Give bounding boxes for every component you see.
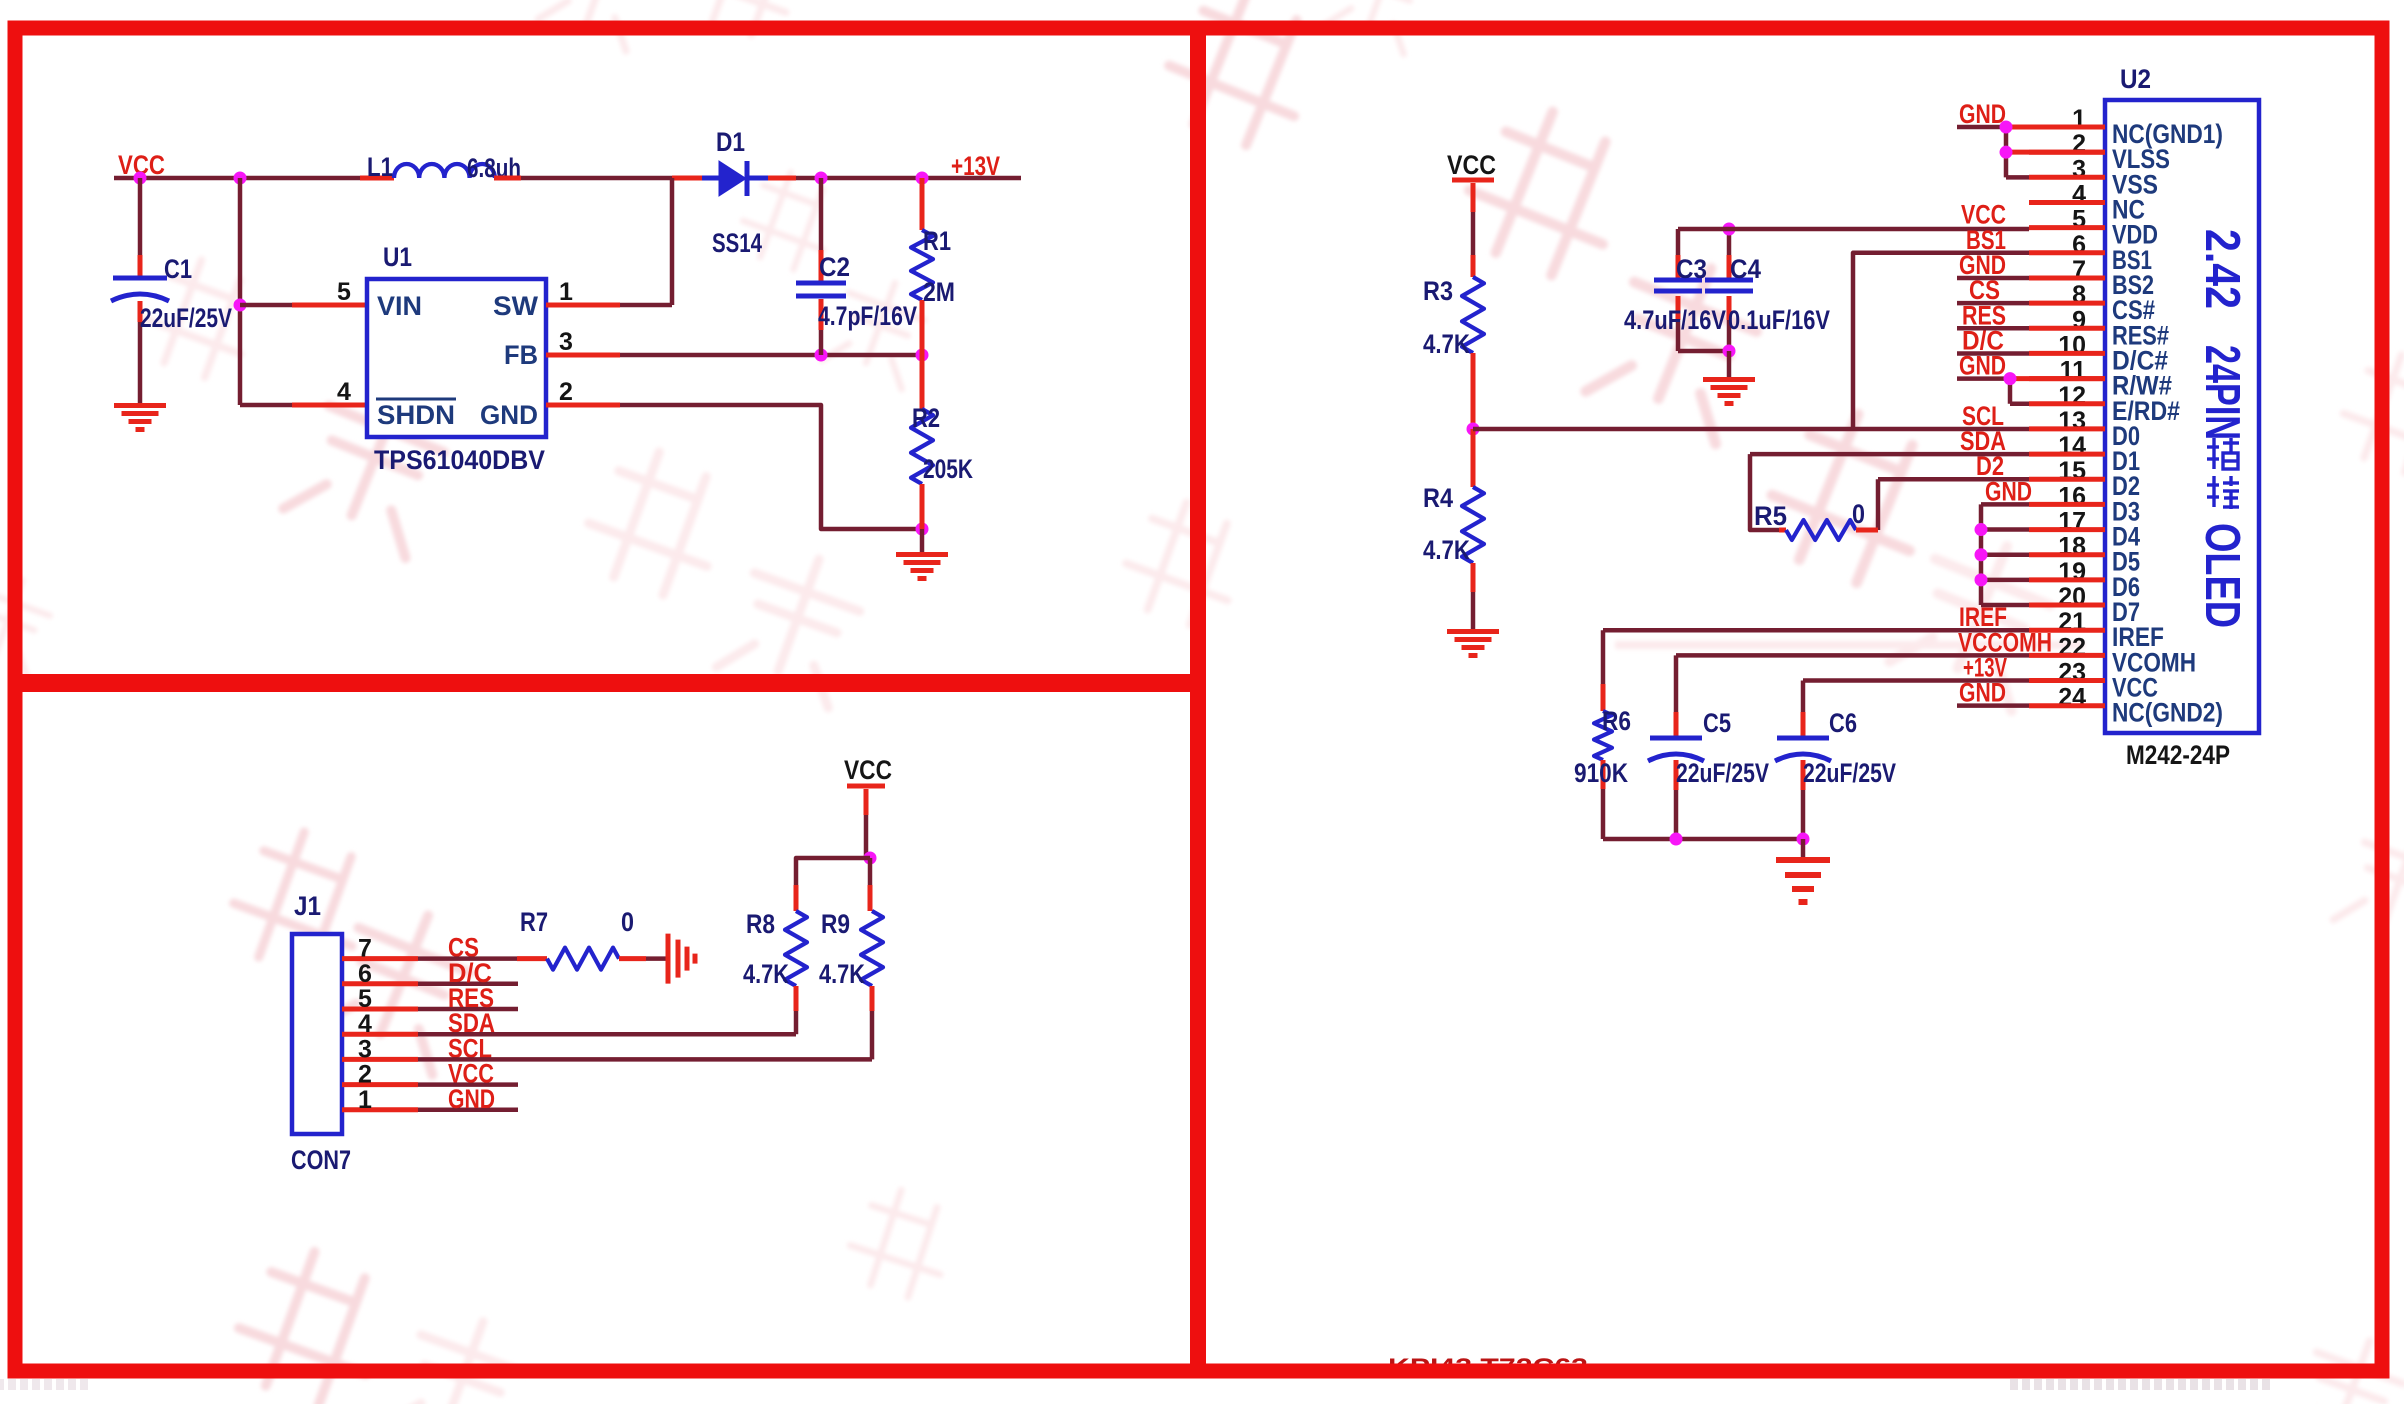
U2 pin 2 stub [2029,150,2105,155]
svg-text:C5: C5 [1703,708,1731,738]
U2 pin 24 stub [2029,703,2105,708]
ground below C1 [114,403,166,408]
svg-text:R4: R4 [1423,483,1453,513]
U2 pin 12 stub [2029,401,2105,406]
svg-text:NC(GND2): NC(GND2) [2112,698,2223,728]
node junction dot R3/R4 [1467,423,1480,436]
node junction dot FB/C2 [815,349,828,362]
svg-text:4.7K: 4.7K [819,959,865,989]
U2 vertical label CJK glyph jie [2207,476,2239,509]
U2 pin 10 stub [2029,351,2105,356]
wire R7 to ground [619,956,646,961]
wire +13V pin 23 to C6 [1803,678,2029,683]
resistor R8 4.7K [785,911,807,986]
U2 pin 6 stub [2029,250,2105,255]
wire D/C stub pin 10 [1957,351,2029,356]
wire VCOMH pin 22 to C5 [1676,653,2029,658]
diode D1 SS14 [702,176,719,181]
resistor R6 910K [1601,684,1606,711]
svg-text:R3: R3 [1423,276,1453,306]
ground below C6 [1776,857,1830,863]
svg-text:3: 3 [559,328,573,356]
wire D2 net pin 15 from R5 [1878,477,2029,482]
node junction dot at C2 branch [815,172,828,185]
svg-text:R8: R8 [746,909,775,939]
wire divider to U2 D0 and BS1 riser [1473,427,2029,432]
svg-text:5: 5 [358,985,372,1013]
resistor R4 4.7K [1471,429,1476,487]
svg-text:205K: 205K [923,454,973,484]
connector J1 CON7 body [292,934,342,1134]
ground below C3/C4 [1703,377,1755,382]
svg-text:TPS61040DBV: TPS61040DBV [374,445,545,475]
svg-text:5: 5 [337,278,351,306]
svg-text:CON7: CON7 [291,1145,351,1175]
svg-text:GND: GND [480,400,538,430]
node junction dot C6 bottom [1797,833,1810,846]
capacitor C4 0.1uF/16V [1727,229,1732,255]
node junction dot at U1 branch [234,172,247,185]
svg-text:GND: GND [448,1084,495,1114]
node junction dot C4 top at VDD wire [1723,223,1736,236]
svg-text:6: 6 [358,960,372,988]
svg-text:R6: R6 [1602,706,1631,736]
svg-text:L1: L1 [367,152,393,182]
svg-text:0: 0 [621,907,634,937]
U2 pin 20 stub [2029,603,2105,608]
node junction dot pin17 [1975,523,1988,536]
wire D1 to +13V rail [768,176,796,181]
wire VCC rail [114,176,360,181]
svg-text:2M: 2M [923,277,955,307]
wire GND stub pin 7 [1957,276,2029,281]
U2 pin 3 stub [2029,175,2105,180]
svg-text:0.1uF/16V: 0.1uF/16V [1728,305,1830,335]
svg-text:C2: C2 [819,252,850,282]
svg-text:4.7K: 4.7K [1423,329,1470,359]
wire to ground below C3/C4 [1727,351,1732,378]
capacitor C1 22uF/25V [138,178,143,255]
U2 pin 18 stub [2029,552,2105,557]
svg-text:4.7K: 4.7K [743,959,789,989]
svg-text:1: 1 [559,278,573,306]
node junction dot at R1 branch [916,172,929,185]
U2 vertical label CJK glyph cha [2207,438,2239,469]
svg-text:3: 3 [358,1035,372,1063]
node junction dot R8/R9 top [864,852,877,865]
inductor L1 [394,164,495,178]
wire L1 to D1 node [494,176,521,181]
svg-text:SHDN: SHDN [377,400,455,430]
svg-text:C6: C6 [1829,708,1857,738]
svg-text:22uF/25V: 22uF/25V [1803,758,1896,788]
svg-text:22uF/25V: 22uF/25V [140,303,232,333]
ground below R2 [920,529,925,553]
svg-text:R9: R9 [821,909,850,939]
faint glyph row under bottom border [2010,1379,2018,1390]
svg-text:VCC: VCC [1447,150,1496,180]
wire GND to U2 pins 1-3 [1957,125,2006,130]
node junction dot at VIN branch [234,299,247,312]
svg-text:SS14: SS14 [712,228,762,258]
svg-text:FB: FB [504,340,538,370]
resistor R1 2M [920,178,925,230]
ground below R4 [1447,629,1499,634]
wire GND bus pins 16-20 [1981,502,2029,507]
svg-text:910K: 910K [1574,758,1628,788]
IC U1 TPS61040DBV body [367,279,546,437]
U2 pin 4 stub [2029,200,2105,205]
svg-text:4: 4 [337,378,351,406]
svg-text:2: 2 [358,1061,372,1089]
U2 pin 13 stub [2029,426,2105,431]
svg-text:R7: R7 [520,907,548,937]
J1 pin 5 stub wire (RES) [342,1007,418,1012]
U2 pin 22 stub [2029,653,2105,658]
svg-text:7: 7 [358,935,372,963]
U2 pin 17 stub [2029,527,2105,532]
capacitor C3 4.7uF/16V [1676,229,1681,280]
node junction dot pin19 [1975,573,1988,586]
wire U1 input branch [238,178,243,405]
wire SDA to R8 [418,1032,796,1037]
node junction dot pin11 [2004,372,2017,385]
svg-text:2.42: 2.42 [2195,229,2249,309]
wire rail red segment before L1 [360,176,394,181]
wire GND stub pin 24 [1957,703,2029,708]
wire IREF pin 21 to R6 [1603,628,2029,633]
U2 pin 9 stub [2029,326,2105,331]
svg-text:C3: C3 [1676,254,1707,284]
resistor R2 205K [920,355,925,409]
U2 pin 23 stub [2029,678,2105,683]
wire ground bus R6/C5/C6 [1603,837,1803,842]
U2 pin 15 stub [2029,477,2105,482]
svg-text:GND: GND [1959,99,2006,129]
decorative watermark strokes [538,0,663,51]
node junction dot pin2 [2000,146,2013,159]
svg-text:4: 4 [358,1010,372,1038]
resistor R3 4.7K [1462,277,1484,353]
U2 pin 1 stub [2029,125,2105,130]
svg-text:U1: U1 [383,242,412,272]
U2 pin 11 stub [2029,376,2105,381]
node junction dot at C1 branch [134,172,147,185]
wire C6 to ground [1801,839,1806,858]
J1 pin 4 stub wire (SDA) [342,1032,418,1037]
svg-text:C4: C4 [1730,254,1761,284]
resistor R9 4.7K [861,911,883,986]
node junction dot C3/C4 bottom [1723,345,1736,358]
wire GND pin 2 to ground net [546,403,620,408]
svg-text:1: 1 [358,1086,372,1114]
wire VDD net from C3 to U2 pin 5 [1678,227,2029,232]
wire R4 to ground [1471,563,1476,592]
horizontal red divider (left half) [15,674,1198,692]
U2 pin 14 stub [2029,452,2105,457]
svg-text:4.7K: 4.7K [1423,535,1470,565]
svg-text:R5: R5 [1754,501,1787,531]
OLED connector U2 body [2105,100,2259,733]
wire CS to R7 [418,956,517,961]
U2 pin 5 stub [2029,225,2105,230]
svg-text:M242-24P: M242-24P [2126,740,2230,770]
wire VCC to R3 [1471,183,1476,212]
wire to SHDN pin 4 [240,403,292,408]
wire SCL to R9 [418,1057,872,1062]
node junction dot at R2 bottom [916,523,929,536]
svg-text:D1: D1 [716,127,745,157]
J1 pin 2 stub wire (VCC) [342,1082,418,1087]
svg-text:+13V: +13V [951,151,1000,181]
node junction dot pin18 [1975,548,1988,561]
wire SDA net pin 14 to R5 [1750,452,2029,457]
svg-text:0: 0 [1852,499,1865,529]
svg-text:4.7pF/16V: 4.7pF/16V [818,301,917,331]
wire C3/C4 bottom bus [1678,349,1729,354]
svg-text:C1: C1 [164,254,192,284]
wire R3 to R4 junction [1471,353,1476,429]
svg-text:4.7uF/16V: 4.7uF/16V [1624,305,1726,335]
U2 pin 16 stub [2029,502,2105,507]
node junction dot FB/R1/R2 [916,349,929,362]
wire GND to U2 pins 11-12 [1957,376,2010,381]
wire VCC to R8/R9 tops [864,789,869,815]
wire SW pin 1 up to rail [546,303,620,308]
J1 pin 1 stub wire (GND) [342,1107,418,1112]
wire R8 top branch [796,858,870,885]
U2 pin 7 stub [2029,276,2105,281]
capacitor C5 22uF/25V [1674,712,1679,737]
U2 pin 21 stub [2029,628,2105,633]
svg-text:2: 2 [559,378,573,406]
svg-text:VIN: VIN [377,291,422,321]
vertical red divider [1190,28,1206,1371]
svg-text:R1: R1 [923,226,951,256]
U2 pin 8 stub [2029,301,2105,306]
svg-text:OLED: OLED [2195,523,2249,628]
svg-text:22uF/25V: 22uF/25V [1676,758,1769,788]
svg-text:U2: U2 [2120,64,2151,94]
svg-text:J1: J1 [294,891,321,921]
node junction dot C5 bottom [1670,833,1683,846]
wire RES stub pin 9 [1957,326,2029,331]
J1 pin 6 stub wire (D/C) [342,981,418,986]
J1 pin 3 stub wire (SCL) [342,1057,418,1062]
svg-text:24PIN: 24PIN [2195,345,2249,440]
resistor R7 0 ohm [547,948,619,970]
svg-text:R2: R2 [912,403,940,433]
wire FB pin 3 to divider [546,353,620,358]
capacitor C2 4.7pF/16V [819,178,824,250]
ground right of R7 (bar style) [666,934,671,984]
node junction dot pin1 [2000,121,2013,134]
J1 pin 7 stub wire (CS) [342,956,418,961]
svg-text:SW: SW [493,291,539,321]
svg-text:VCC: VCC [844,755,892,785]
resistor R5 0 ohm [1779,528,1786,533]
capacitor C6 22uF/25V [1801,712,1806,737]
U2 pin 19 stub [2029,577,2105,582]
wire CS stub pin 8 [1957,301,2029,306]
wire to VIN pin 5 [240,303,292,308]
